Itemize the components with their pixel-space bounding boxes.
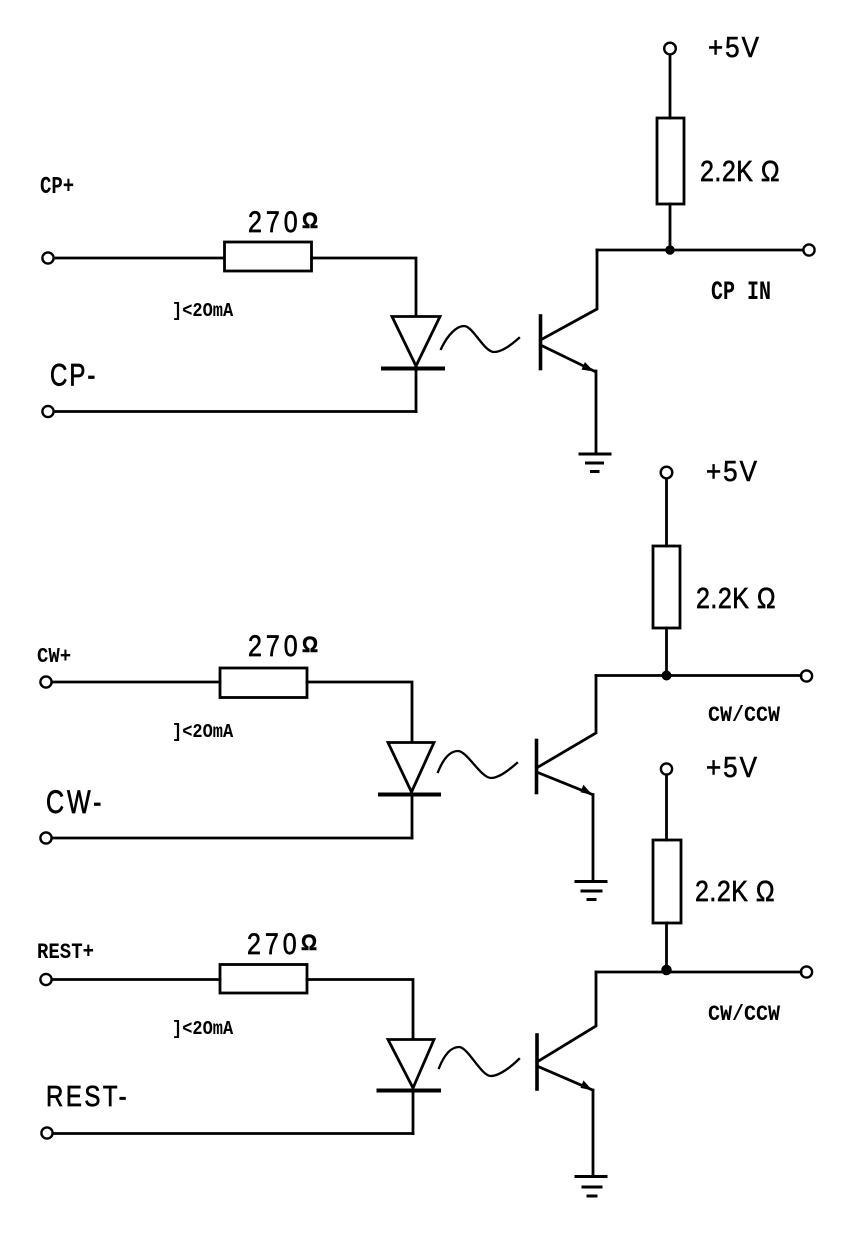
terminal +5V (stage 2) [661, 467, 673, 479]
wire rail CW/CCW (stage 3) [596, 971, 801, 974]
resistor R5 value 270Ω [247, 927, 317, 961]
transistor Q2 base bar [535, 741, 539, 793]
junction node CW/CCW [662, 671, 670, 679]
wire Q2 emitter to ground [592, 795, 595, 881]
LED D2 optocoupler diode [380, 743, 439, 795]
wire R2 to rail [669, 204, 672, 250]
terminal CW/CCW output (stage 3) [801, 966, 812, 977]
wire D1 cathode down [415, 370, 418, 412]
resistor R4 2.2KΩ body [653, 546, 680, 628]
svg-text:Ω: Ω [301, 931, 317, 955]
LED D3 optocoupler diode [379, 1040, 440, 1091]
resistor R2 2.2KΩ body [657, 118, 684, 204]
resistor R5 270Ω body [220, 965, 307, 994]
svg-text:Ω: Ω [302, 209, 318, 233]
svg-text:CW/CCW: CW/CCW [708, 1003, 780, 1027]
terminal +5V (stage 1) [664, 43, 676, 55]
svg-text:+5V: +5V [706, 455, 759, 487]
wire Q3 emitter to ground [592, 1090, 595, 1175]
wire CW+ terminal to R3 [52, 681, 220, 684]
wire REST- return [53, 1132, 413, 1135]
resistor R6 2.2KΩ body [653, 840, 681, 923]
svg-text:]<2OmA: ]<2OmA [172, 722, 233, 743]
svg-text:2.2K Ω: 2.2K Ω [695, 875, 775, 907]
svg-text:270: 270 [248, 629, 302, 663]
optocoupler U3 light coupling squiggle [439, 1047, 519, 1076]
resistor R3 270Ω body [220, 668, 307, 698]
wire rail CP IN [597, 249, 803, 252]
wire +5V terminal to R6 [665, 775, 668, 840]
svg-text:2.2K Ω: 2.2K Ω [696, 582, 776, 614]
transistor Q2 collector [537, 676, 597, 769]
transistor Q1 collector [541, 250, 598, 340]
transistor Q1 base bar [539, 316, 543, 369]
svg-text:270: 270 [248, 205, 302, 239]
wire R1 to LED D1 anode [312, 258, 417, 315]
svg-text:+5V: +5V [706, 751, 759, 783]
wire REST+ terminal to R5 [52, 978, 220, 981]
transistor Q1 emitter [541, 345, 595, 372]
wire D3 cathode down [412, 1092, 415, 1134]
wire +5V terminal to R2 [669, 55, 672, 118]
terminal CW- [40, 832, 51, 843]
transistor Q3 emitter [537, 1066, 593, 1091]
svg-text:CW-: CW- [46, 785, 105, 821]
svg-text:CP-: CP- [50, 357, 97, 392]
terminal CP- [42, 406, 53, 417]
svg-text:+5V: +5V [708, 31, 761, 63]
junction node CW/CCW (stage 3) [662, 966, 671, 975]
terminal +5V (stage 3) [661, 763, 672, 774]
ground GND3 [576, 1177, 606, 1197]
wire rail CW/CCW [596, 674, 801, 677]
junction node CP IN [666, 246, 674, 254]
terminal CP IN output [803, 244, 814, 255]
wire D2 cathode down [411, 796, 414, 838]
wire R5 to LED D3 anode [307, 980, 413, 1039]
resistor R3 value 270Ω [248, 629, 318, 663]
svg-text:Ω: Ω [302, 633, 318, 657]
terminal CP+ [42, 252, 53, 263]
svg-text:]<2OmA: ]<2OmA [172, 301, 233, 322]
wire +5V terminal to R4 [665, 479, 668, 546]
wire Q1 emitter to ground [595, 371, 598, 453]
terminal REST+ [40, 974, 51, 985]
svg-text:CP+: CP+ [40, 174, 74, 201]
svg-text:REST-: REST- [46, 1080, 129, 1113]
transistor Q3 base bar [535, 1035, 539, 1089]
wire R6 to rail [665, 923, 668, 972]
terminal CW+ [40, 676, 51, 687]
resistor R1 value 270Ω [248, 205, 318, 239]
svg-text:2.2K Ω: 2.2K Ω [700, 155, 780, 187]
resistor R1 270Ω body [225, 242, 312, 271]
svg-text:CP IN: CP IN [711, 277, 771, 308]
svg-text:270: 270 [247, 927, 301, 961]
terminal REST- [41, 1127, 52, 1138]
optocoupler U1 light coupling squiggle [441, 326, 519, 352]
transistor Q2 emitter [537, 772, 593, 795]
wire CW- return [52, 837, 412, 840]
LED D1 optocoupler diode [383, 317, 443, 369]
optocoupler U2 light coupling squiggle [438, 751, 517, 778]
transistor Q3 collector [537, 972, 596, 1062]
svg-text:CW/CCW: CW/CCW [708, 704, 780, 728]
ground GND2 [576, 882, 606, 900]
wire CP- return [54, 410, 416, 413]
svg-text:]<2OmA: ]<2OmA [172, 1019, 233, 1040]
svg-text:REST+: REST+ [37, 941, 94, 966]
terminal CW/CCW output [801, 670, 812, 681]
svg-text:CW+: CW+ [37, 644, 71, 668]
wire CP+ terminal to R1 [54, 257, 224, 260]
ground GND1 [580, 454, 610, 472]
wire R3 to LED D2 anode [307, 682, 412, 741]
wire R4 to rail [665, 628, 668, 676]
